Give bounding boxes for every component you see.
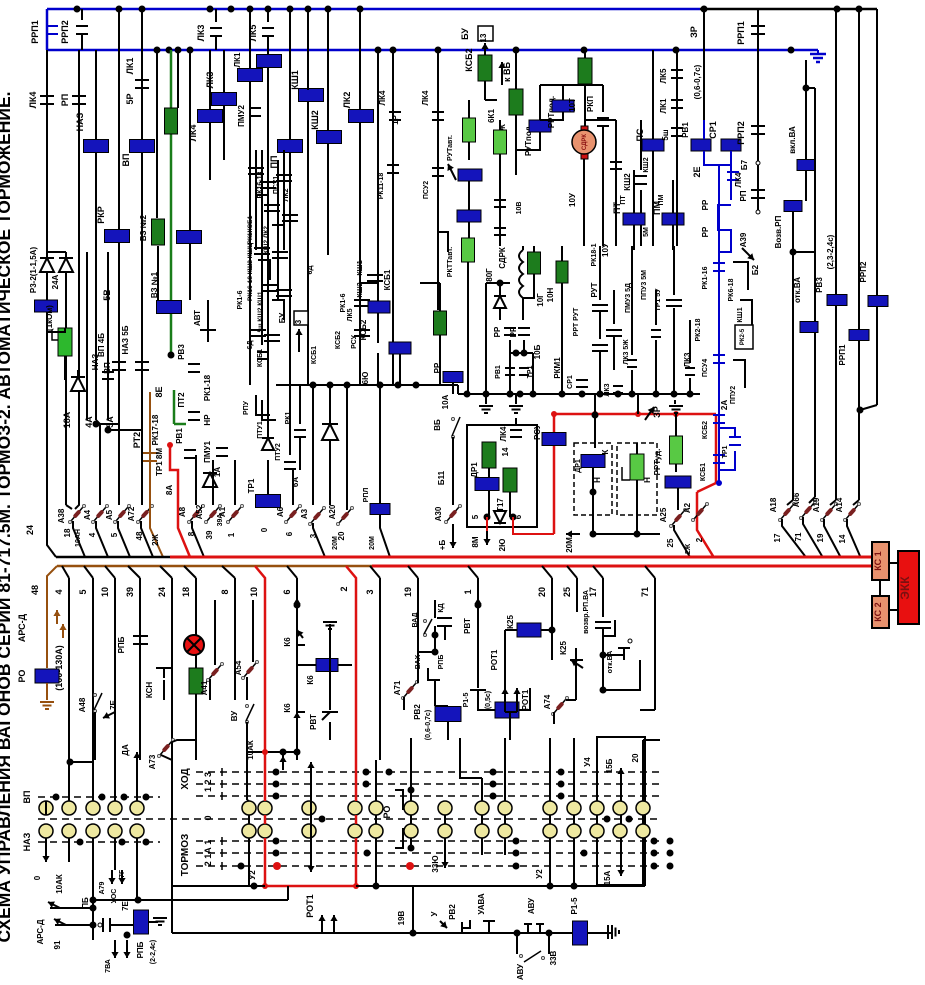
svg-text:РКР: РКР bbox=[96, 206, 106, 224]
switch А48 bbox=[94, 710, 97, 713]
svg-text:Н: Н bbox=[643, 477, 652, 483]
svg-text:25: 25 bbox=[562, 587, 572, 597]
wire col 411b bbox=[410, 738, 412, 801]
wire i7 bbox=[636, 443, 638, 454]
contact возвр bbox=[595, 621, 611, 623]
wire откВА e bbox=[600, 652, 607, 659]
diode c bbox=[262, 438, 274, 450]
bracket РКТТавт bbox=[438, 232, 448, 252]
contact g4 bbox=[651, 329, 661, 331]
red wire col 265 bbox=[264, 760, 267, 801]
svg-text:4: 4 bbox=[88, 532, 97, 537]
arrow 20М bbox=[566, 533, 580, 535]
svg-text:6: 6 bbox=[514, 514, 523, 519]
wire col 297 bbox=[296, 752, 298, 760]
green wire low bbox=[173, 390, 176, 424]
svg-text:24: 24 bbox=[157, 587, 167, 597]
svg-text:А72: А72 bbox=[127, 506, 136, 521]
contact Р1-5 bbox=[470, 690, 486, 700]
svg-text:А1: А1 bbox=[218, 506, 227, 517]
red wire 10 b bbox=[255, 566, 265, 760]
svg-text:(100-130А): (100-130А) bbox=[54, 645, 64, 691]
wire А52 riser bbox=[212, 460, 214, 505]
junction bus1 x=210 bbox=[207, 6, 214, 13]
red wire drop right bbox=[715, 414, 718, 483]
svg-text:РРП2: РРП2 bbox=[859, 261, 868, 282]
svg-text:РО: РО bbox=[382, 806, 392, 819]
svg-text:ЛК4: ЛК4 bbox=[734, 172, 743, 187]
svg-text:РОТ1: РОТ1 bbox=[521, 689, 530, 710]
arrow РО dn bbox=[310, 780, 312, 872]
svg-text:РК1: РК1 bbox=[285, 411, 292, 424]
wire А38 to bus bbox=[73, 521, 85, 557]
svg-text:Б2: Б2 bbox=[751, 264, 760, 275]
fuse А8 bbox=[190, 507, 202, 521]
svg-text:14: 14 bbox=[838, 534, 847, 543]
dot i bbox=[590, 531, 597, 538]
coil КШ1 bbox=[299, 89, 324, 102]
bracket РО a bbox=[395, 790, 403, 810]
contact ПСУ2 bbox=[432, 167, 444, 169]
svg-text:А2: А2 bbox=[683, 502, 692, 513]
fuse А74 bbox=[554, 699, 566, 713]
junction bus1 x=837 bbox=[834, 6, 841, 13]
svg-text:РРП1: РРП1 bbox=[838, 344, 847, 365]
dashed line ВП row bbox=[38, 796, 160, 798]
contact КД bbox=[437, 617, 452, 619]
contact РПБ bbox=[133, 635, 148, 637]
wire 71 down bbox=[654, 690, 656, 710]
lightgreen coil m4 bbox=[462, 238, 475, 262]
wire 17 b bbox=[593, 566, 603, 578]
wire inductor bbox=[522, 246, 524, 250]
svg-text:Б7: Б7 bbox=[740, 159, 749, 170]
wire col 482 bbox=[481, 778, 483, 801]
contact КСН bbox=[156, 667, 172, 669]
svg-text:СР1: СР1 bbox=[567, 375, 574, 389]
contact РВ3 bbox=[188, 363, 200, 365]
svg-text:(2,3-2,4с): (2,3-2,4с) bbox=[826, 234, 835, 269]
wire 1 b bbox=[468, 566, 478, 578]
coil ЛК2 bbox=[349, 110, 374, 123]
red bus bottom bbox=[265, 885, 356, 888]
svg-text:91: 91 bbox=[53, 940, 62, 949]
svg-text:РПБ: РПБ bbox=[438, 655, 445, 670]
bracket КШ1 bbox=[740, 300, 752, 325]
blue path lk4 bbox=[730, 165, 732, 200]
contact ЛК4 c2 bbox=[432, 111, 444, 113]
svg-text:РКП: РКП bbox=[586, 96, 595, 112]
contact РР f2 bbox=[518, 327, 530, 329]
wire РКП bbox=[602, 85, 604, 112]
svg-text:У2: У2 bbox=[535, 869, 544, 879]
svg-text:71: 71 bbox=[640, 587, 650, 597]
wire А18 bus bbox=[782, 519, 805, 556]
motor СДРК bbox=[581, 126, 588, 134]
contact РВ1 mid bbox=[184, 449, 196, 451]
blue zigzag РР bbox=[718, 205, 731, 252]
coil СР1 a bbox=[691, 139, 711, 151]
bus y394 bbox=[458, 393, 700, 395]
dashed box Н bbox=[617, 443, 657, 515]
dot 6 bbox=[510, 514, 517, 521]
contact ЛК5 m bbox=[671, 69, 683, 71]
wire lamp-А73 bbox=[195, 740, 197, 745]
svg-text:2А: 2А bbox=[720, 400, 729, 410]
contact cluster a1 bbox=[264, 204, 280, 206]
coil КСБ2 blue bbox=[368, 301, 390, 313]
svg-text:НАЗ: НАЗ bbox=[22, 832, 32, 851]
contact откВА e bbox=[618, 648, 630, 660]
wire x440 bbox=[439, 283, 441, 311]
fuse А1 bbox=[229, 507, 241, 521]
contact circles row1 main bbox=[242, 801, 256, 815]
svg-text:РОТ1: РОТ1 bbox=[490, 649, 499, 670]
box БУ13 bbox=[478, 26, 493, 41]
coil РРТуд blue bbox=[665, 476, 691, 488]
bracket cl3 bbox=[258, 260, 270, 280]
diode Т17 bbox=[494, 511, 506, 523]
svg-text:2Е: 2Е bbox=[692, 166, 702, 177]
dot РВ1 bbox=[167, 442, 173, 448]
svg-text:РР: РР bbox=[433, 362, 442, 373]
svg-text:КШ1: КШ1 bbox=[357, 260, 364, 275]
wire К25 b bbox=[504, 630, 506, 688]
ground blue r bbox=[817, 50, 819, 54]
svg-text:ЛК1: ЛК1 bbox=[233, 52, 242, 67]
red wire РВ1 bbox=[170, 445, 190, 557]
wire horiz 430 bbox=[96, 423, 119, 425]
svg-text:РРП2: РРП2 bbox=[60, 20, 70, 43]
wire x284 zl bbox=[283, 150, 285, 250]
wire ТР1 up bbox=[267, 460, 269, 495]
svg-text:КШ2: КШ2 bbox=[623, 173, 632, 191]
wire РВ2 c bbox=[434, 680, 436, 706]
wire col 445 bbox=[444, 815, 446, 824]
svg-text:А54: А54 bbox=[234, 660, 243, 675]
arrow 15Б bbox=[620, 768, 622, 800]
wire x278 cl bbox=[277, 160, 279, 300]
svg-text:10У: 10У bbox=[568, 192, 577, 207]
bracket cl4 bbox=[272, 300, 284, 320]
svg-text:ЛК3: ЛК3 bbox=[205, 72, 215, 89]
fuse А41 bbox=[209, 665, 221, 679]
contacts b bbox=[262, 284, 278, 286]
wire РП column bbox=[75, 50, 79, 509]
svg-text:А4: А4 bbox=[83, 509, 92, 520]
wire col 411 bbox=[375, 760, 377, 801]
svg-text:6: 6 bbox=[285, 531, 294, 536]
brown wire РО bbox=[46, 624, 48, 668]
wire x400 bbox=[399, 354, 401, 385]
svg-text:ДР1: ДР1 bbox=[470, 462, 479, 478]
wire 10АК h bbox=[247, 751, 298, 753]
dot Б7 bbox=[756, 161, 760, 165]
contact РК1 c bbox=[294, 429, 306, 431]
ground i3 bbox=[674, 400, 676, 404]
bracket К6 a bbox=[297, 630, 305, 645]
wire col 643 bbox=[642, 740, 644, 801]
wire 3 b bbox=[370, 566, 380, 578]
wire x178 top bbox=[177, 50, 179, 108]
svg-text:А38: А38 bbox=[57, 508, 66, 523]
blue wire x719 bbox=[718, 165, 720, 483]
box 15Б bbox=[597, 737, 645, 885]
svg-text:А66: А66 bbox=[792, 492, 801, 507]
svg-text:ЗР: ЗР bbox=[652, 406, 662, 418]
svg-text:ППУ2: ППУ2 bbox=[730, 386, 737, 404]
diode ПКОМ bbox=[71, 377, 85, 391]
junction bus2 x=676 bbox=[673, 47, 680, 54]
wire x268 mid bbox=[267, 300, 269, 440]
svg-text:ДР1: ДР1 bbox=[575, 459, 582, 473]
wire m4 bbox=[467, 262, 469, 394]
svg-text:1: 1 bbox=[227, 532, 236, 537]
dashed line НАЗ row bbox=[38, 841, 160, 843]
coil РО bbox=[35, 669, 59, 683]
arrow РВТ d bbox=[477, 598, 479, 612]
svg-text:УОС: УОС bbox=[111, 889, 118, 904]
wire К6 down bbox=[296, 726, 298, 760]
coil вклВА bbox=[797, 160, 815, 171]
contact РП r bbox=[751, 189, 765, 191]
svg-text:А18: А18 bbox=[769, 497, 778, 512]
fuse А38 bbox=[71, 507, 83, 521]
contact ЛК1 m bbox=[671, 99, 683, 101]
junction y394 x=510 bbox=[507, 391, 514, 398]
svg-text:РП: РП bbox=[60, 94, 70, 106]
junction bus2 x=516 bbox=[513, 47, 520, 54]
contact cluster a2 bbox=[254, 247, 270, 249]
coil К6 bbox=[316, 659, 338, 672]
junction bus1 x=859 bbox=[856, 6, 863, 13]
coil ПС bbox=[642, 139, 664, 151]
svg-text:КД: КД bbox=[438, 603, 445, 612]
svg-text:А79: А79 bbox=[99, 881, 106, 894]
svg-text:ЛК3: ЛК3 bbox=[196, 25, 206, 42]
svg-text:А25: А25 bbox=[659, 507, 668, 522]
position bars upper bbox=[221, 768, 223, 776]
svg-text:8Е: 8Е bbox=[154, 386, 164, 397]
position bars lower bbox=[221, 837, 223, 845]
lightgreen coil m2 bbox=[494, 130, 507, 154]
svg-text:СХЕМА УПРАВЛЕНИЯ ВАГОНОВ СЕРИИ: СХЕМА УПРАВЛЕНИЯ ВАГОНОВ СЕРИИ 81-717.5М… bbox=[0, 91, 14, 942]
svg-text:А39: А39 bbox=[739, 232, 748, 247]
svg-text:ТР1 8М: ТР1 8М bbox=[155, 448, 164, 476]
svg-text:БУ: БУ bbox=[460, 28, 470, 40]
svg-text:24А: 24А bbox=[51, 274, 60, 289]
wire i4 bbox=[594, 394, 596, 415]
svg-text:РВ3: РВ3 bbox=[815, 277, 824, 293]
svg-text:ПТУ1: ПТУ1 bbox=[257, 421, 264, 439]
contact circles row2 main bbox=[242, 824, 256, 838]
svg-text:Р1-5: Р1-5 bbox=[463, 693, 470, 708]
fuse А30 bbox=[447, 507, 459, 521]
svg-text:АВУ: АВУ bbox=[527, 897, 536, 914]
wire top 643 bbox=[643, 739, 660, 741]
green coil Н bbox=[630, 454, 644, 480]
svg-text:1А: 1А bbox=[213, 467, 222, 477]
svg-text:ВБ: ВБ bbox=[433, 419, 442, 431]
coil РПБ m bbox=[134, 910, 149, 934]
blue contact ЛК4 k bbox=[727, 171, 739, 173]
svg-text:15Б: 15Б bbox=[605, 758, 614, 773]
wire А20 riser bbox=[346, 385, 348, 510]
junction y394 x=467 bbox=[464, 391, 471, 398]
wire 10Б bbox=[532, 353, 534, 394]
contact ВАХ bbox=[428, 668, 440, 680]
svg-text:ЛК5: ЛК5 bbox=[659, 68, 668, 83]
wire 6Ж bbox=[515, 50, 517, 89]
svg-text:РК6-18: РК6-18 bbox=[728, 278, 735, 301]
coil ЛК1c bbox=[238, 69, 263, 82]
svg-text:ЛК2: ЛК2 bbox=[342, 92, 352, 109]
svg-text:РР: РР bbox=[509, 326, 518, 337]
wire x859 bbox=[858, 9, 860, 329]
svg-text:РВ1: РВ1 bbox=[681, 122, 690, 138]
wire А73 bbox=[172, 740, 196, 742]
junction green bbox=[168, 352, 175, 359]
svg-text:А41: А41 bbox=[200, 680, 209, 695]
wire К25 e bbox=[575, 660, 577, 700]
fuse А71 bbox=[404, 683, 416, 697]
wire РР e bbox=[452, 383, 454, 394]
wire РРП2 drop bbox=[81, 9, 83, 20]
svg-text:2: 2 bbox=[695, 537, 704, 542]
wire x393 bbox=[392, 50, 394, 385]
svg-text:УАВА: УАВА bbox=[477, 893, 486, 915]
wire 20 b bbox=[542, 566, 552, 578]
coil РРТпод bbox=[552, 100, 574, 112]
switch ВБ bbox=[452, 436, 455, 439]
junction y394 x=582 bbox=[579, 391, 586, 398]
dashed lines controller lower bbox=[196, 840, 660, 842]
svg-text:+Б: +Б bbox=[438, 540, 447, 551]
coil РСУ bbox=[542, 433, 566, 446]
wire А6 riser bbox=[292, 470, 294, 505]
junction y394 x=632 bbox=[629, 391, 636, 398]
svg-text:24: 24 bbox=[25, 525, 35, 535]
svg-text:РРТуд.: РРТуд. bbox=[653, 449, 662, 476]
junction bus1 x=308 bbox=[305, 6, 312, 13]
bus main black part bbox=[56, 556, 170, 559]
arrow РО up bbox=[310, 762, 312, 870]
bracket возвр bbox=[603, 620, 615, 636]
svg-text:39: 39 bbox=[205, 530, 214, 539]
svg-text:РК16-18 КШ2 КШЦ: РК16-18 КШ2 КШЦ bbox=[247, 243, 254, 301]
svg-text:ВУ: ВУ bbox=[230, 710, 239, 721]
green coil 10Т bbox=[578, 58, 592, 84]
svg-text:РК18-1: РК18-1 bbox=[591, 243, 598, 266]
svg-text:33В: 33В bbox=[549, 950, 558, 965]
inductor СДРК bbox=[519, 250, 523, 298]
wire x300 mid bbox=[299, 385, 301, 424]
blue contact ПСУ4 bbox=[713, 354, 725, 356]
dots left dash bbox=[53, 794, 60, 801]
wire 91 m bbox=[55, 924, 93, 926]
svg-text:5: 5 bbox=[471, 514, 480, 519]
arrow К6 a bbox=[297, 630, 303, 638]
coil ВЗ blue bbox=[177, 231, 202, 244]
wire КСБ1 h bbox=[360, 282, 378, 284]
contact ПМУ2 bbox=[249, 107, 261, 109]
svg-text:А74: А74 bbox=[543, 694, 552, 709]
svg-text:КШ2: КШ2 bbox=[357, 282, 364, 297]
coil КСБ2 blue2 bbox=[389, 342, 411, 354]
contact КШ2 m bbox=[635, 175, 647, 177]
svg-text:КШ1: КШ1 bbox=[290, 70, 300, 90]
dot 7Е bbox=[124, 932, 131, 939]
svg-text:А20: А20 bbox=[328, 504, 337, 519]
bracket РО b bbox=[395, 828, 403, 848]
wire col 550 bbox=[549, 738, 551, 801]
svg-text:возвр.РП.ВА: возвр.РП.ВА bbox=[583, 590, 590, 634]
wire К6 bbox=[296, 645, 298, 700]
svg-text:6: 6 bbox=[282, 589, 292, 594]
junction bus1 x=119 bbox=[116, 6, 123, 13]
wire РОТ1 d bbox=[504, 700, 506, 712]
contact КСБ1 bbox=[257, 351, 267, 353]
svg-text:ЛК4: ЛК4 bbox=[28, 92, 38, 109]
junction y394 x=674 bbox=[671, 391, 678, 398]
junction bus1 x=250 bbox=[247, 6, 254, 13]
svg-text:8А: 8А bbox=[165, 485, 174, 495]
blue junction bbox=[716, 480, 722, 486]
blue branch ТР1 bbox=[719, 428, 735, 437]
svg-text:Б11: Б11 bbox=[437, 470, 446, 485]
wire x250 bbox=[249, 9, 251, 300]
contact НАЗ 5Б bbox=[135, 361, 149, 363]
bracket К6 b bbox=[297, 700, 305, 712]
svg-text:ПМ: ПМ bbox=[658, 194, 665, 205]
wire x262 cl bbox=[261, 150, 263, 345]
wire col 376 bbox=[375, 815, 377, 824]
wire А74 bbox=[566, 699, 576, 701]
arrow БУ bbox=[298, 329, 300, 352]
wire x815 bbox=[814, 88, 816, 497]
svg-text:4А: 4А bbox=[84, 416, 94, 428]
contact ПБ bbox=[102, 918, 104, 932]
bracket cl1 bbox=[256, 195, 268, 215]
wire РВТ d2 bbox=[478, 700, 495, 710]
green coil Т17 bbox=[503, 468, 517, 492]
svg-text:К25: К25 bbox=[559, 641, 568, 655]
svg-text:20: 20 bbox=[631, 753, 640, 762]
wire col 69 bbox=[69, 761, 92, 763]
svg-text:КСБ1: КСБ1 bbox=[383, 269, 392, 290]
svg-text:ХОД: ХОД bbox=[180, 768, 191, 789]
svg-text:У4: У4 bbox=[583, 757, 592, 767]
svg-text:33Ю: 33Ю bbox=[431, 855, 440, 872]
junction bus2 x=178 bbox=[175, 47, 182, 54]
tcontact za1 bbox=[248, 167, 264, 169]
svg-text:80Г: 80Г bbox=[485, 268, 494, 282]
svg-text:(0,6-0,7с): (0,6-0,7с) bbox=[425, 710, 432, 740]
coil РКТТавт blue bbox=[457, 210, 481, 222]
contact РВ1 m bbox=[671, 127, 683, 129]
wire bottom main bbox=[172, 932, 612, 934]
contact РРП2 r bbox=[751, 125, 765, 127]
wire 4А bbox=[86, 252, 88, 420]
wire col 115 bbox=[114, 738, 116, 801]
wire РПЛ bbox=[379, 385, 381, 503]
contact ЛК3 h bbox=[685, 367, 695, 369]
arrow А39 bbox=[742, 248, 754, 260]
svg-text:РПЛ: РПЛ bbox=[363, 488, 370, 503]
svg-text:А19: А19 bbox=[812, 497, 821, 512]
wire А4 to bus bbox=[96, 521, 108, 557]
svg-text:0: 0 bbox=[260, 527, 269, 532]
